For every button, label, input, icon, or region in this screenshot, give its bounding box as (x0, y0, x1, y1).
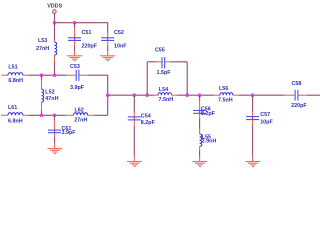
svg-text:10nF: 10nF (114, 44, 127, 50)
capacitor C57 (246, 117, 259, 120)
wire C54 to ground (133, 120, 135, 126)
svg-text:L53: L53 (38, 38, 47, 44)
wire bottom-left input stub (1, 114, 8, 116)
junction L52 bottom (40, 114, 44, 118)
svg-text:27nH: 27nH (74, 118, 87, 124)
junction C54 tap (133, 93, 137, 97)
capacitor C56 (193, 110, 206, 113)
svg-text:8.2pF: 8.2pF (141, 120, 156, 126)
wire L61 to junctions (23, 114, 29, 116)
wire middle line segment 1 (108, 94, 154, 96)
wire C51 to ground (74, 41, 76, 46)
wire top-left input stub (2, 74, 9, 76)
svg-text:VDDS: VDDS (47, 4, 62, 10)
wire red stub into L54 (154, 94, 158, 96)
svg-text:10pF: 10pF (260, 120, 273, 126)
svg-text:3.9pF: 3.9pF (62, 130, 77, 136)
wire C57 to ground (252, 120, 254, 126)
wire L52 lower (41, 102, 43, 111)
svg-text:8.2pF: 8.2pF (201, 111, 216, 117)
inductor L62 (74, 113, 88, 116)
svg-text:47nH: 47nH (45, 96, 58, 102)
wire VDDS pin to rail (54, 13, 56, 23)
inductor L61 (8, 113, 23, 116)
wire L52 branch (41, 75, 43, 80)
wire L62 right to corner (88, 114, 94, 116)
wire red stub into C58 (285, 94, 295, 96)
junction middle line start (106, 93, 110, 97)
inductor L56 (220, 93, 233, 96)
wire L56 right (233, 94, 239, 96)
capacitor C61 (48, 130, 61, 133)
capacitor C57 gap pin line (252, 117, 254, 119)
svg-text:C55: C55 (155, 48, 165, 54)
svg-text:7.5nH: 7.5nH (159, 97, 174, 103)
wire C54 branch (133, 95, 135, 112)
svg-text:L56: L56 (219, 86, 228, 92)
svg-text:220pF: 220pF (291, 103, 307, 109)
ground below C61 (47, 149, 62, 154)
wire red stub into C53 (67, 74, 76, 76)
inductor L54 (158, 93, 172, 96)
wire C56 branch (199, 95, 201, 100)
wire C58 right to output (298, 94, 307, 96)
inductor L53 (55, 42, 57, 55)
wire drop to C52 (107, 34, 109, 38)
capacitor C52 gap pin line (107, 38, 109, 40)
junction at C51 tap (73, 21, 77, 25)
wire red stub into L56 (214, 94, 220, 96)
ground below L55 (192, 162, 207, 167)
svg-text:7.5nH: 7.5nH (218, 98, 233, 104)
svg-text:3.9pF: 3.9pF (70, 85, 85, 91)
svg-text:6.8nH: 6.8nH (8, 78, 23, 84)
wire C55 right leg (186, 62, 188, 95)
svg-text:1.5pF: 1.5pF (157, 70, 172, 76)
capacitor C54 (128, 117, 141, 120)
svg-text:L52: L52 (45, 90, 54, 96)
capacitor C52 (101, 38, 114, 41)
wire C52 to ground (107, 41, 109, 46)
svg-text:2.9nH: 2.9nH (202, 139, 217, 145)
wire C61 to ground (54, 133, 56, 138)
svg-text:L62: L62 (75, 108, 84, 114)
junction C55 left tap (145, 93, 149, 97)
power pin VDDS (open circle terminal) (53, 10, 57, 14)
svg-text:C54: C54 (141, 114, 151, 120)
ground below C54 (127, 162, 142, 167)
svg-text:L54: L54 (159, 87, 168, 93)
wire drop to C51 (74, 23, 76, 28)
wire L53 branch lower (54, 55, 56, 62)
inductor L52 (42, 89, 44, 102)
capacitor C55 (series) (162, 57, 165, 68)
wire rail corner down to C52 (107, 23, 109, 34)
ground below C51 (67, 56, 82, 61)
junction L53 bottom (53, 73, 57, 77)
junction C57 tap (251, 93, 255, 97)
wire C56 to L55 (199, 114, 201, 120)
capacitor C54 gap pin line (133, 117, 135, 119)
capacitor C58 (series) (295, 90, 298, 101)
wire C55 top left (147, 61, 156, 63)
junction L52 top (40, 73, 44, 77)
capacitor C56 gap pin line (199, 111, 201, 113)
junction C56 tap (198, 93, 202, 97)
svg-text:C52: C52 (114, 30, 124, 36)
wire C53 right to corner (79, 74, 88, 76)
wire C55 left leg (146, 62, 148, 95)
svg-text:C57: C57 (260, 112, 270, 118)
wire C57 branch (252, 95, 254, 112)
svg-text:C53: C53 (70, 64, 80, 70)
svg-text:6.8nH: 6.8nH (8, 119, 23, 125)
wire L55 to ground (199, 146, 201, 151)
wire C55 top right (165, 61, 170, 63)
capacitor C53 (series) (76, 70, 79, 81)
wire L53 branch upper (54, 23, 56, 40)
capacitor C61 gap pin line (54, 130, 56, 132)
svg-text:27nH: 27nH (36, 46, 49, 52)
wire red stub into L62 (66, 114, 73, 116)
junction C61 top (53, 114, 57, 118)
svg-text:220pF: 220pF (82, 44, 98, 50)
wire vertical link at x=107.7 (107, 75, 109, 115)
ground below C52 (100, 56, 115, 61)
wire L51 to junctions (23, 74, 29, 76)
capacitor C51 (68, 38, 81, 41)
inductor L55 (200, 134, 202, 146)
wire top rail horizontal (55, 22, 108, 24)
svg-text:L61: L61 (8, 105, 17, 111)
junction at VDDS rail left (53, 21, 57, 25)
capacitor C51 gap pin line (74, 38, 76, 40)
wire C61 branch (54, 115, 56, 121)
wire L54 right (172, 94, 177, 96)
svg-text:C58: C58 (292, 81, 302, 87)
svg-text:C51: C51 (82, 30, 92, 36)
ground below C57 (245, 162, 260, 167)
junction C55 right tap (185, 93, 189, 97)
inductor L51 (8, 73, 23, 76)
svg-text:L51: L51 (8, 65, 17, 71)
